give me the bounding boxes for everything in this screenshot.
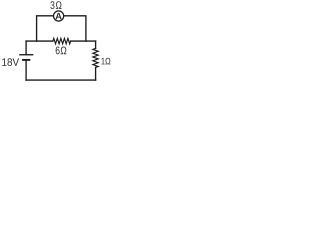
wire top branch (left vertical, top horizontal, right vertical) [37,16,86,41]
label 1Ω [101,58,110,65]
ammeter A circle [54,11,64,21]
wire bottom [26,79,96,81]
label 6Ω [56,47,67,55]
label 18V [2,58,19,66]
wire left battery branch lower [25,60,27,80]
resistor 6Ω zigzag [53,38,71,44]
wire middle branch right [71,40,96,42]
wire left battery branch upper [25,41,27,54]
wire right branch lower [95,67,97,80]
battery 18V long plate [20,54,33,56]
wire right branch upper [95,41,97,48]
label 3Ω [50,1,61,9]
wire middle branch left [26,40,53,42]
ammeter A letter [55,13,61,19]
battery 18V short plate [23,59,29,61]
resistor 1Ω zigzag [93,48,98,67]
